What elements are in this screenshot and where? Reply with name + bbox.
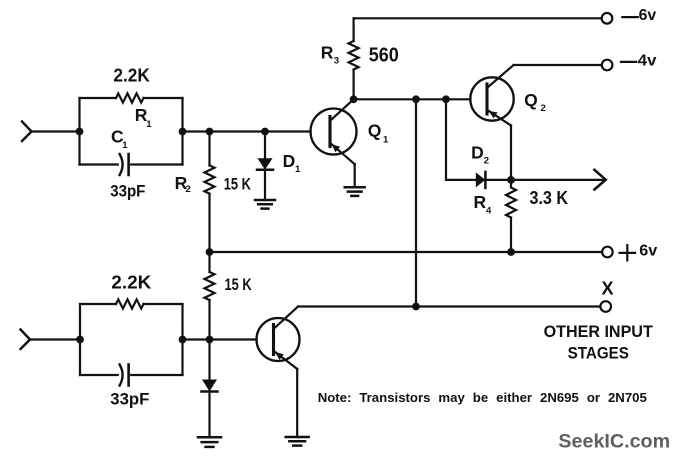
svg-text:15 K: 15 K <box>224 175 252 194</box>
svg-text:4v: 4v <box>638 53 657 70</box>
svg-text:STAGES: STAGES <box>568 344 629 363</box>
svg-text:SeekIC.com: SeekIC.com <box>558 431 670 453</box>
svg-text:1: 1 <box>383 135 389 146</box>
svg-text:OTHER INPUT: OTHER INPUT <box>544 322 654 341</box>
svg-text:33pF: 33pF <box>110 182 145 200</box>
svg-text:1: 1 <box>146 119 152 130</box>
svg-text:R: R <box>474 192 487 212</box>
svg-text:6v: 6v <box>639 243 657 260</box>
svg-text:560: 560 <box>369 45 399 67</box>
svg-text:Q: Q <box>368 121 382 141</box>
svg-text:X: X <box>602 279 614 299</box>
svg-text:1: 1 <box>295 164 301 175</box>
svg-text:2: 2 <box>186 184 191 195</box>
svg-text:3.3 K: 3.3 K <box>530 187 569 208</box>
svg-text:Q: Q <box>524 90 538 110</box>
svg-text:33pF: 33pF <box>110 391 149 409</box>
svg-text:15 K: 15 K <box>225 275 253 294</box>
svg-text:D: D <box>471 143 484 163</box>
svg-text:R: R <box>321 43 334 63</box>
svg-text:6v: 6v <box>639 7 657 24</box>
svg-text:D: D <box>283 151 296 171</box>
svg-text:4: 4 <box>486 206 492 217</box>
svg-text:Note: Transistors may be eithe: Note: Transistors may be either 2N695 or… <box>318 390 647 405</box>
svg-text:2.2K: 2.2K <box>111 273 151 293</box>
svg-text:2.2K: 2.2K <box>113 66 149 86</box>
svg-text:1: 1 <box>122 140 128 151</box>
svg-text:3: 3 <box>334 56 339 67</box>
svg-text:2: 2 <box>484 156 489 167</box>
svg-text:2: 2 <box>541 103 546 114</box>
